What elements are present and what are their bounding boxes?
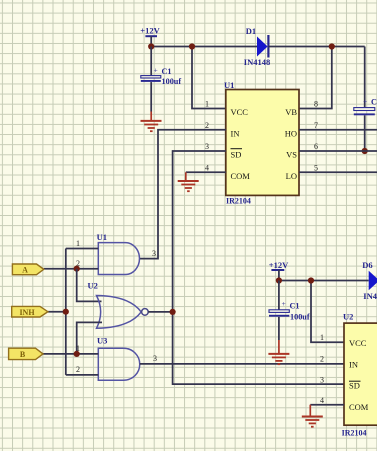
svg-text:COM: COM xyxy=(349,402,369,412)
wire gate U3 input 2 from INH rail xyxy=(66,374,99,376)
wire U1 pin7 HO xyxy=(299,129,377,131)
svg-text:1: 1 xyxy=(205,100,209,109)
svg-text:IN: IN xyxy=(231,128,240,138)
ground (U1 COM) xyxy=(178,172,199,191)
svg-text:3: 3 xyxy=(205,142,209,151)
ground (C1 top) xyxy=(141,112,162,132)
wire INH to rail xyxy=(48,311,66,313)
svg-text:LO: LO xyxy=(286,171,297,181)
junction NOR output / SD rail xyxy=(170,309,176,315)
svg-text:VB: VB xyxy=(285,107,297,117)
svg-text:2: 2 xyxy=(320,355,324,364)
capacitor C1 (bottom) xyxy=(269,281,310,341)
svg-text:+: + xyxy=(282,299,286,308)
wire NOR input 2 from B rail xyxy=(77,322,102,354)
svg-text:U1: U1 xyxy=(97,232,107,242)
svg-text:+12V: +12V xyxy=(140,26,160,36)
svg-text:2: 2 xyxy=(76,365,80,374)
svg-text:A: A xyxy=(22,265,28,274)
svg-text:U1: U1 xyxy=(224,80,234,90)
svg-text:1: 1 xyxy=(320,333,324,342)
port A xyxy=(12,264,43,275)
svg-text:U2: U2 xyxy=(343,312,353,322)
svg-text:3: 3 xyxy=(153,354,157,363)
svg-text:C1: C1 xyxy=(290,302,300,311)
svg-text:D1: D1 xyxy=(246,26,256,36)
wire U2 pin4 COM xyxy=(310,404,344,406)
wire U1 pin4 COM xyxy=(186,171,226,173)
svg-text:SD: SD xyxy=(349,381,360,391)
svg-text:2: 2 xyxy=(205,121,209,130)
wire +12V to D6 xyxy=(279,280,369,282)
svg-text:IN4148: IN4148 xyxy=(244,57,270,67)
port B xyxy=(9,348,43,359)
IC U1 IR2104 xyxy=(224,80,299,206)
wire gate U3 output to U2 pin2 IN xyxy=(140,363,344,365)
power +12V (bottom) xyxy=(269,260,289,281)
svg-text:VS: VS xyxy=(286,150,297,160)
junction +12V bottom xyxy=(276,277,282,283)
wire U1 pin5 LO xyxy=(299,171,377,173)
power +12V (top) xyxy=(140,26,160,47)
svg-text:IN: IN xyxy=(349,360,358,370)
svg-text:3: 3 xyxy=(320,376,324,385)
svg-text:SD: SD xyxy=(231,150,242,160)
svg-text:3: 3 xyxy=(152,249,156,258)
wire B to gate U3 input 1 xyxy=(43,353,98,355)
wire gate U1 input 1 xyxy=(66,248,99,250)
junction VB rail xyxy=(329,43,335,49)
svg-text:C2: C2 xyxy=(371,98,377,107)
svg-text:IN41: IN41 xyxy=(363,291,377,301)
capacitor C2 (bootstrap, right edge) xyxy=(354,97,377,151)
junction at +12V xyxy=(148,43,154,49)
junction VCC rail xyxy=(189,43,195,49)
svg-text:+12V: +12V xyxy=(269,260,289,270)
capacitor C1 (top) xyxy=(141,47,182,112)
svg-text:5: 5 xyxy=(314,163,318,172)
wire VCC rail down to U1 pin1 xyxy=(192,47,226,109)
wire +12V to D1 anode xyxy=(151,46,257,48)
wire U1 pin2 IN to gate U1 output xyxy=(140,130,226,259)
junction C2 on VS xyxy=(362,148,368,154)
svg-text:100uf: 100uf xyxy=(290,312,310,321)
svg-text:4: 4 xyxy=(205,163,209,172)
svg-text:7: 7 xyxy=(314,121,318,130)
svg-text:COM: COM xyxy=(231,171,251,181)
wire VCC rail to U2 pin1 xyxy=(311,281,344,343)
wire to C2 top xyxy=(364,47,366,108)
wire U1 pin6 VS xyxy=(299,150,377,152)
svg-text:IR2104: IR2104 xyxy=(226,197,251,206)
svg-text:INH: INH xyxy=(19,308,35,317)
svg-text:4: 4 xyxy=(320,396,324,405)
junction A xyxy=(74,266,80,272)
wire D1 cathode to bootstrap xyxy=(268,46,364,48)
svg-text:C1: C1 xyxy=(162,67,172,76)
junction INH xyxy=(63,309,69,315)
junction U2 VCC rail xyxy=(308,277,314,283)
wire VB rail to U1 pin8 xyxy=(299,47,332,109)
wire U1 pin3 SD to NOR output rail xyxy=(173,151,344,384)
svg-text:+: + xyxy=(154,66,158,75)
svg-text:VCC: VCC xyxy=(231,107,249,117)
ground (C1 bottom) xyxy=(268,340,289,364)
IC U2 IR2104 xyxy=(342,312,377,438)
svg-text:VCC: VCC xyxy=(349,338,367,348)
svg-text:8: 8 xyxy=(314,100,318,109)
junction B xyxy=(74,351,80,357)
gate U2 NOR xyxy=(88,280,149,328)
wire A rail to NOR input 1 xyxy=(77,269,102,302)
diode D6 IN4148 xyxy=(362,260,377,301)
svg-text:HO: HO xyxy=(285,128,297,138)
diode D1 IN4148 xyxy=(244,26,270,67)
svg-text:B: B xyxy=(20,350,26,359)
svg-text:U3: U3 xyxy=(97,336,107,346)
svg-text:IR2104: IR2104 xyxy=(342,429,367,438)
wire NOR output xyxy=(148,311,172,313)
svg-text:100uf: 100uf xyxy=(162,77,182,86)
svg-text:+: + xyxy=(363,97,367,106)
port INH xyxy=(12,306,48,317)
gate U1 AND xyxy=(97,232,140,275)
gate U3 AND xyxy=(97,336,140,381)
svg-text:6: 6 xyxy=(314,142,318,151)
svg-text:1: 1 xyxy=(76,239,80,248)
wire gate U1 input 2 from A xyxy=(44,268,99,270)
ground (U2 COM) xyxy=(302,405,323,427)
wire INH rail xyxy=(65,249,67,375)
svg-text:D6: D6 xyxy=(362,260,372,270)
svg-text:U2: U2 xyxy=(88,280,98,290)
